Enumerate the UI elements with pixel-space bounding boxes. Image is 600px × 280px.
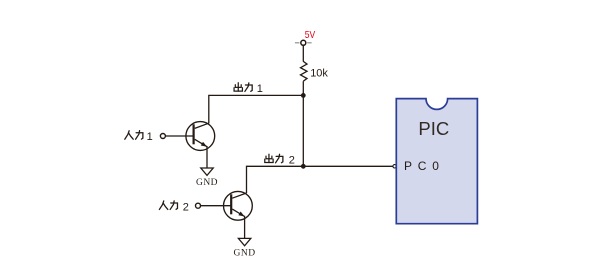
wire input 1 to Q1 base — [166, 135, 194, 137]
pin terminal PC0 — [393, 165, 396, 168]
svg-text:1: 1 — [147, 131, 153, 143]
transistor Q1 — [186, 122, 215, 151]
power terminal 5V — [301, 40, 306, 45]
svg-text:PIC: PIC — [418, 118, 449, 139]
wire Q1 emitter to ground — [206, 146, 208, 168]
svg-text:2: 2 — [183, 201, 189, 213]
wire Q2 emitter to ground — [244, 216, 246, 239]
label 出力1 — [234, 83, 263, 95]
transistor Q2 — [224, 191, 253, 220]
ground GND1 — [196, 168, 218, 188]
IC U1 PIC — [396, 99, 477, 224]
svg-text:GND: GND — [234, 249, 256, 259]
svg-text:PC0: PC0 — [404, 159, 445, 173]
ground GND2 — [234, 238, 256, 258]
node junction 1 (output 1) — [301, 93, 306, 98]
resistor R1 — [301, 61, 308, 81]
svg-text:5V: 5V — [305, 29, 315, 41]
wire node 1 to Q1 collector — [209, 95, 303, 123]
node junction 2 (output 2) — [301, 164, 306, 169]
label 入力1 — [125, 131, 153, 143]
wire node 2 to PIC pin PC0 — [303, 165, 393, 167]
wire node 1 to node 2 — [302, 95, 304, 166]
svg-text:1: 1 — [257, 83, 263, 95]
label 入力2 — [159, 201, 189, 214]
tick right of 5V terminal — [307, 42, 311, 44]
input terminal 1 — [160, 134, 165, 139]
wire node 2 to Q2 collector — [247, 166, 304, 193]
svg-text:10k: 10k — [310, 67, 328, 79]
wire input 2 to Q2 base — [201, 205, 232, 207]
label 出力2 — [265, 154, 295, 166]
svg-text:GND: GND — [196, 178, 218, 188]
wire R1 to node 1 — [302, 81, 304, 95]
svg-text:2: 2 — [289, 154, 295, 166]
wire 5V terminal to resistor R1 — [302, 45, 304, 61]
input terminal 2 — [196, 203, 201, 208]
tick left of 5V terminal — [295, 42, 300, 44]
